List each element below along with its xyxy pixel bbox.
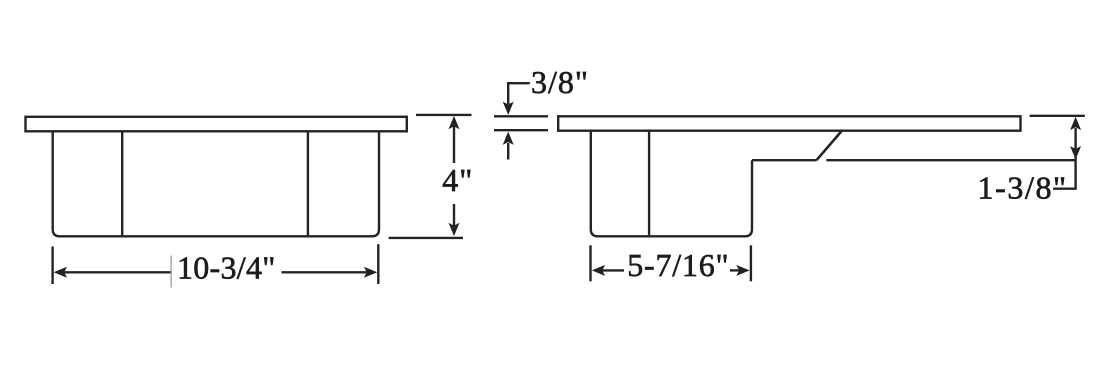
svg-text:3/8": 3/8" [531,64,589,100]
svg-text:10-3/4": 10-3/4" [177,250,276,286]
svg-text:5-7/16": 5-7/16" [627,247,729,283]
svg-text:1-3/8": 1-3/8" [978,169,1068,205]
svg-text:4": 4" [442,162,473,198]
